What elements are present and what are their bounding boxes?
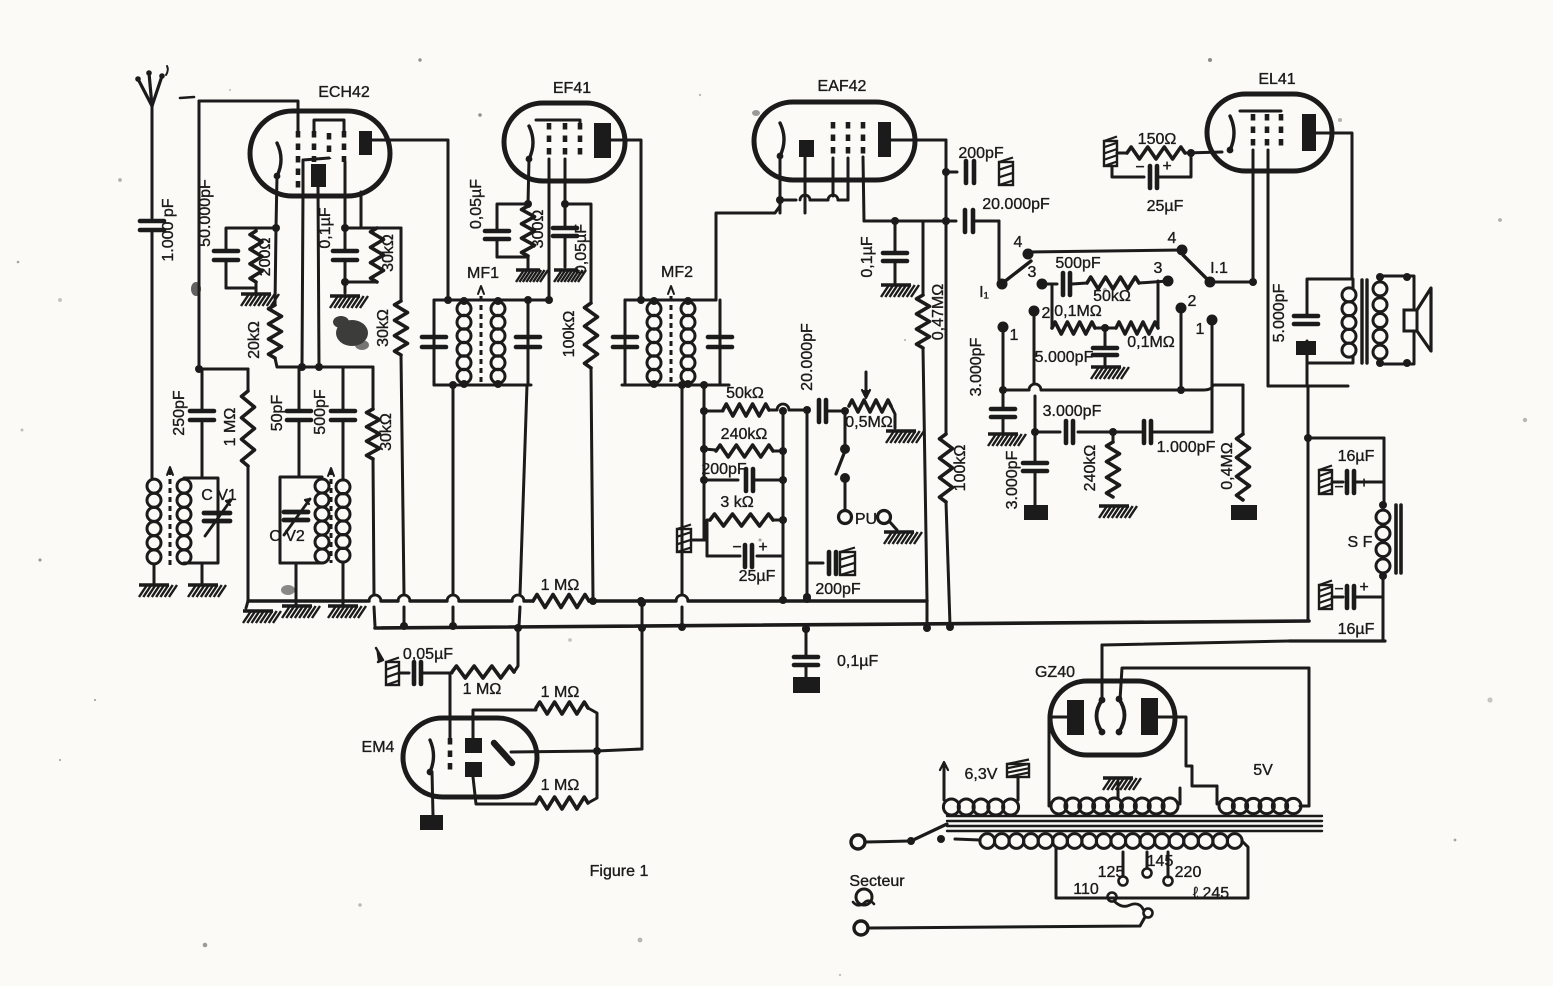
wire ladder left rail <box>700 381 708 540</box>
switch I1 lever <box>1004 261 1031 282</box>
capacitor 16µF upper <box>1319 448 1384 496</box>
grid g2 EL41 <box>1265 114 1270 146</box>
core power transformer <box>947 816 1322 831</box>
capacitor 1.000pF antenna series <box>140 198 177 261</box>
ground 3kΩ hatch block <box>677 525 707 553</box>
wire tone middle node <box>1095 324 1116 332</box>
wire oscillator anode to bus start <box>373 459 375 626</box>
wire tone left drop <box>1051 284 1054 328</box>
wire ECH42 internal g3 step <box>303 158 329 192</box>
capacitor MF1 primary <box>422 337 446 347</box>
coil 5V winding <box>1219 798 1301 813</box>
wire ECH42 triode anode pin <box>318 187 319 367</box>
capacitor 20.000pF coupling <box>946 196 1050 232</box>
wire MF1 top rail <box>434 296 553 305</box>
svg-text:1 MΩ: 1 MΩ <box>541 577 580 594</box>
svg-text:+: + <box>1359 475 1368 492</box>
terminal 0,05µF hatch block <box>386 658 399 686</box>
wire contact4 to contact4 <box>1028 250 1182 252</box>
ground EM4 black <box>420 815 443 830</box>
svg-text:30kΩ: 30kΩ <box>375 309 392 347</box>
svg-text:0,1MΩ: 0,1MΩ <box>1127 334 1175 351</box>
capacitor 200pF PU <box>807 548 861 599</box>
wire EL41 grid lead <box>1249 150 1257 286</box>
filament GZ40 left <box>1097 697 1106 736</box>
selector wiper <box>1114 901 1144 911</box>
label GZ40 <box>1035 664 1075 681</box>
ground 5.000pF black <box>1296 341 1316 355</box>
wire 100kΩ to AVC bus <box>591 368 593 599</box>
label MF2 <box>661 264 693 281</box>
label 6,3V <box>965 766 998 783</box>
tube ECH42 envelope <box>250 111 390 196</box>
wire MF1 left rail <box>433 300 436 385</box>
wire EL41 screen bottom rail <box>1268 363 1348 386</box>
svg-text:I.1: I.1 <box>1210 260 1228 277</box>
node MF1 stub at bus <box>449 622 457 630</box>
capacitor MF2 primary <box>613 337 637 347</box>
coil MF1 secondary <box>491 302 505 384</box>
coil output primary <box>1342 288 1356 357</box>
wire rectifier output to SF <box>1102 641 1289 645</box>
capacitor 500pF tone <box>1042 255 1101 295</box>
capacitor 0,05µF EF41 screen <box>553 204 590 274</box>
grid g1 ECH42 <box>296 131 301 188</box>
wire MF1 ground stub <box>449 381 457 624</box>
svg-text:3: 3 <box>1028 264 1037 281</box>
grid g3 ECH42 <box>327 133 332 159</box>
svg-text:30kΩ: 30kΩ <box>378 413 395 451</box>
capacitor 16µF lower <box>1319 579 1383 638</box>
svg-text:100kΩ: 100kΩ <box>952 445 969 492</box>
anode hexode ECH42 <box>359 131 372 155</box>
switch I1 contact 4 <box>1014 234 1034 260</box>
anode triode ECH42 <box>311 164 326 187</box>
resistor 0,4MΩ grid leak <box>1219 385 1250 500</box>
resistor 300Ω EF41 cathode <box>522 206 548 256</box>
potentiometer 0,5MΩ volume <box>841 400 893 431</box>
cathode EF41 <box>526 126 533 162</box>
wire CV1 frame <box>184 478 218 563</box>
label EL41 <box>1258 71 1295 88</box>
wire 1MΩ upper right <box>588 708 597 750</box>
wire ECH42 cathode lead <box>276 176 277 228</box>
svg-text:20.000pF: 20.000pF <box>799 323 816 391</box>
terminal mains 1 <box>851 835 865 849</box>
target bar EM4 <box>494 743 512 763</box>
node ECH42 cathode <box>272 224 280 232</box>
capacitor 500pF oscillator <box>312 367 355 480</box>
wire 150Ω to EL41 cathode <box>1185 149 1222 157</box>
svg-text:ℓ 245: ℓ 245 <box>1193 885 1229 902</box>
switch I1 pivot <box>997 279 1008 290</box>
wire EM4 grid lead <box>449 673 452 740</box>
wire MF2 bottom rail <box>622 380 729 388</box>
wire tone row3 <box>1031 428 1212 436</box>
wire primary left lead <box>955 839 980 840</box>
coil SF field <box>1376 510 1390 573</box>
ground antenna primary <box>139 585 177 597</box>
coil antenna secondary <box>177 479 191 564</box>
terminal mains 2 <box>854 921 868 935</box>
svg-text:Figure 1: Figure 1 <box>590 863 649 880</box>
coil oscillator tank <box>315 479 329 563</box>
anode GZ40 right <box>1141 698 1158 735</box>
capacitor 50pF oscillator <box>269 367 311 477</box>
wire EAF42 cathode pin <box>776 156 784 213</box>
svg-text:5.000pF: 5.000pF <box>1271 283 1288 342</box>
svg-text:0,05µF: 0,05µF <box>573 224 590 274</box>
wire top rail to ECH42 grid <box>180 97 298 133</box>
svg-text:100kΩ: 100kΩ <box>561 311 578 358</box>
resistor 1MΩ EM4 upper <box>536 684 588 714</box>
coil oscillator feedback <box>336 480 350 562</box>
jack PU right <box>878 511 891 524</box>
wire EAF42 diode pin <box>804 157 807 213</box>
core MF1 <box>478 286 484 385</box>
cathode ECH42 <box>274 143 281 179</box>
resistor 240kΩ tone shunt <box>1082 432 1120 497</box>
label 5.000pF output <box>1271 283 1288 342</box>
wire EM4 cathode to ground <box>432 772 433 815</box>
wire SF bottom rail <box>1289 639 1385 642</box>
svg-text:MF2: MF2 <box>661 264 693 281</box>
wire GZ40 left anode lead <box>1049 717 1067 806</box>
anode square EM4 upper <box>465 738 482 753</box>
svg-text:PU: PU <box>855 511 877 528</box>
svg-text:0,1µF: 0,1µF <box>317 207 334 248</box>
label CV1 <box>201 487 237 504</box>
node lower bus junctions <box>802 625 810 633</box>
grid g3 EF41 <box>578 123 583 155</box>
node antenna junction <box>195 365 203 373</box>
label I.1 <box>1210 260 1228 277</box>
wire 5V winding right end <box>1300 805 1309 808</box>
capacitor MF2 secondary <box>708 337 732 347</box>
capacitor 25µF electrolytic <box>707 539 783 585</box>
svg-text:Secteur: Secteur <box>849 873 905 890</box>
svg-text:150Ω: 150Ω <box>1138 131 1177 148</box>
wire I.1 contact2 drop <box>1180 311 1183 390</box>
label SF <box>1348 534 1373 551</box>
anode square EM4 lower <box>465 762 482 777</box>
svg-text:C V2: C V2 <box>269 528 305 545</box>
svg-text:0,1MΩ: 0,1MΩ <box>1054 303 1102 320</box>
ground HV center tap <box>1103 778 1141 799</box>
capacitor 50.000pF cathode <box>197 179 276 288</box>
label 245 <box>1193 885 1229 902</box>
wire primary to ground <box>153 564 156 583</box>
svg-text:2: 2 <box>1042 305 1051 322</box>
svg-text:1 MΩ: 1 MΩ <box>541 684 580 701</box>
switch I.1 contact 2 <box>1176 293 1197 314</box>
tube EF41 envelope <box>504 103 625 181</box>
resistor 3kΩ ladder <box>707 494 783 540</box>
svg-text:50pF: 50pF <box>269 395 286 432</box>
wire EF41 grid to MF1 <box>548 159 551 300</box>
cathode EAF42 <box>777 123 784 159</box>
capacitor 0,05µF EM4 <box>399 646 453 684</box>
capacitor 0,05µF EF41 cathode <box>468 179 528 257</box>
svg-text:20.000pF: 20.000pF <box>982 196 1050 213</box>
wire EAF42 g3 pin <box>847 158 850 200</box>
wire volume node vertical <box>803 406 811 601</box>
resistor 1MΩ oscillator grid <box>222 369 255 466</box>
wire SF right rail upper <box>1379 438 1387 509</box>
grid g3 EL41 <box>1279 114 1284 146</box>
wire 30kΩ to cap bottom <box>341 278 377 286</box>
wire primary right end <box>1242 841 1248 898</box>
wire MF2 secondary to EAF42 grid <box>716 206 780 300</box>
wire CV2 to ground <box>295 563 298 604</box>
resistor 20kΩ <box>246 228 282 359</box>
svg-text:220: 220 <box>1175 864 1202 881</box>
capacitor MF1 secondary <box>516 337 540 347</box>
capacitor 200pF anode <box>946 145 1004 183</box>
ground 0,1µF EAF42 <box>881 285 919 297</box>
wire antenna lead to coil <box>151 232 154 478</box>
svg-text:50kΩ: 50kΩ <box>726 385 764 402</box>
anode GZ40 left <box>1067 700 1084 735</box>
ground 0,1µF bus black <box>793 677 820 693</box>
label ECH42 <box>318 84 370 101</box>
wire I.1 contact1 drop <box>1211 323 1214 432</box>
svg-text:+: + <box>758 539 767 556</box>
svg-text:3: 3 <box>1154 260 1163 277</box>
tube EL41 envelope <box>1207 94 1332 171</box>
resistor 100kΩ to bus <box>940 434 970 502</box>
svg-text:20kΩ: 20kΩ <box>246 321 263 359</box>
grid g2 EAF42 <box>846 122 851 154</box>
grid g2 ECH42 <box>312 131 317 162</box>
grid g4 ECH42 <box>342 131 347 162</box>
switch I.1 pivot <box>1205 277 1216 288</box>
capacitor 3.000pF row3 shunt <box>1004 432 1047 509</box>
node mains switch pivot <box>907 837 915 845</box>
capacitor 1.000pF row3 <box>1115 421 1216 456</box>
label Figure 1 <box>590 863 649 880</box>
switch mains lever <box>911 824 947 841</box>
svg-text:+: + <box>1359 579 1368 596</box>
wire anode vertical <box>942 140 950 434</box>
switch I1 contact 1 <box>998 322 1019 345</box>
wire CV2 frame <box>280 477 322 563</box>
grid g1 EL41 <box>1251 114 1256 146</box>
wire GZ40 filament lead 2 <box>1120 668 1309 700</box>
core output transformer <box>1362 280 1367 363</box>
svg-text:6,3V: 6,3V <box>965 766 998 783</box>
ground 0,4MΩ black <box>1231 505 1257 520</box>
wire AVC bus right section <box>589 595 927 605</box>
svg-text:0,5MΩ: 0,5MΩ <box>845 414 893 431</box>
svg-text:−: − <box>1334 581 1343 598</box>
resistor 50kΩ ladder <box>704 385 769 416</box>
svg-text:125: 125 <box>1098 864 1125 881</box>
core oscillator transformer <box>328 468 334 563</box>
label PU <box>855 511 877 528</box>
grid g2 EF41 <box>563 123 568 155</box>
switch PU upper contact <box>840 411 850 454</box>
resistor 1MΩ EM4 grid <box>452 666 514 698</box>
svg-text:−: − <box>1334 479 1343 496</box>
wire screen strap ECH42 <box>314 120 344 131</box>
ground CV2 <box>282 606 320 618</box>
wire EAF42 g1 pin <box>832 158 835 196</box>
node MF2 stub at bus <box>678 623 686 631</box>
svg-text:5V: 5V <box>1253 762 1273 779</box>
switch I1 contact 3 <box>1028 264 1048 290</box>
resistor 240kΩ ladder <box>704 426 783 457</box>
wire mains terminal 1 <box>866 841 909 842</box>
wire MF2 right rail <box>719 300 722 385</box>
ground cathode RC <box>241 294 279 306</box>
svg-text:−: − <box>1135 159 1144 176</box>
svg-text:3.000pF: 3.000pF <box>968 337 985 396</box>
capacitor 200pF ladder <box>701 461 783 491</box>
speaker <box>1404 288 1431 351</box>
svg-text:0,4MΩ: 0,4MΩ <box>1219 442 1236 490</box>
wire tap 145 <box>1146 852 1149 868</box>
cathode EM4 <box>427 740 434 775</box>
svg-text:500pF: 500pF <box>312 389 329 435</box>
switch PU lever <box>836 451 845 474</box>
wire tap box <box>1056 848 1248 898</box>
ground PU <box>884 521 922 544</box>
svg-text:3.000pF: 3.000pF <box>1043 403 1102 420</box>
wire antenna bus vertical <box>198 101 201 369</box>
wire mains terminal 2 to selector <box>868 917 1145 928</box>
svg-text:1.000 pF: 1.000 pF <box>160 198 177 261</box>
wire antenna down-lead <box>151 104 154 218</box>
svg-text:+: + <box>1162 158 1171 175</box>
wire EF41 cathode RC bottom <box>497 256 528 259</box>
resistor 30kΩ screen upper <box>371 228 398 282</box>
capacitor 5.000pF tone <box>1035 328 1117 366</box>
resistor 0,47MΩ diode load <box>917 221 948 348</box>
resistor 50kΩ tone <box>1087 277 1168 305</box>
coil MF2 primary <box>647 302 661 384</box>
svg-text:250pF: 250pF <box>171 390 188 436</box>
terminal 6,3V hatch <box>1007 760 1029 778</box>
coil output secondary <box>1373 282 1387 359</box>
switch I1 contact 2 <box>1029 305 1051 322</box>
resistor 30kΩ screen lower <box>375 228 408 355</box>
wire MF2 left rail <box>624 300 627 385</box>
coil HV winding <box>1051 798 1178 814</box>
grid g1 EAF42 <box>831 122 836 154</box>
svg-text:500pF: 500pF <box>1055 255 1101 272</box>
anode EL41 <box>1302 114 1316 151</box>
capacitor 0,1µF bus decoupling <box>794 625 878 677</box>
wire EM4 anode lower to 1MΩ <box>473 777 536 804</box>
resistor 1MΩ AVC bus <box>533 577 589 608</box>
svg-text:C V1: C V1 <box>201 487 237 504</box>
wire GZ40 right anode lead <box>1158 717 1217 786</box>
wire EAF42 diode load rail <box>864 217 950 225</box>
label 5V <box>1253 762 1273 779</box>
wire SF right rail lower <box>1379 572 1387 641</box>
svg-text:16µF: 16µF <box>1338 448 1375 465</box>
wire 20.000pF to switch I1 <box>998 221 1001 281</box>
svg-text:0,1µF: 0,1µF <box>837 653 878 670</box>
wire 30kΩ lower to bus <box>401 355 404 624</box>
svg-text:1 MΩ: 1 MΩ <box>541 777 580 794</box>
svg-text:5.000pF: 5.000pF <box>1035 349 1094 366</box>
wire EM4 anode upper to 1MΩ <box>473 710 536 738</box>
wire grid strap EL41 <box>1240 110 1281 113</box>
coil MF1 primary <box>457 302 471 384</box>
wire 6,3V right lead <box>1017 777 1020 800</box>
wire ladder right rail <box>779 407 787 556</box>
resistor 30kΩ oscillator anode <box>367 367 396 459</box>
wire EAF42 screen pin <box>863 157 864 221</box>
wire EF41 screen to 100kΩ <box>565 204 591 303</box>
svg-text:3.000pF: 3.000pF <box>1004 450 1021 509</box>
svg-text:1: 1 <box>1010 327 1019 344</box>
ground EF41 screen <box>554 270 586 282</box>
wire row1 hook to 0,4MΩ <box>1203 385 1243 390</box>
tap circle 110 <box>1073 881 1116 902</box>
tube EM4 envelope <box>403 718 537 797</box>
wire EF41 cathode pin <box>524 159 532 208</box>
label I1 <box>979 284 989 301</box>
capacitor 0,1µF ECH42 screen <box>317 207 357 282</box>
coil 6,3V winding <box>943 799 1018 815</box>
svg-text:240kΩ: 240kΩ <box>721 426 768 443</box>
wire MF2 top rail <box>625 296 716 305</box>
svg-text:240kΩ: 240kΩ <box>1082 445 1099 492</box>
switch I.1 contact 4 <box>1168 230 1188 256</box>
svg-text:S F: S F <box>1348 534 1373 551</box>
svg-text:MF1: MF1 <box>467 265 499 282</box>
wire 1MΩ to AVC bus <box>247 466 250 601</box>
svg-text:25µF: 25µF <box>739 568 776 585</box>
wire 1MΩ to bus <box>514 624 522 672</box>
switch I.1 lever <box>1183 255 1208 280</box>
wire MF2 ground stub <box>678 381 686 624</box>
wire output transformer primary frame <box>1307 279 1353 363</box>
svg-text:1 MΩ: 1 MΩ <box>222 408 239 447</box>
wire 50kΩ to volume node <box>769 404 807 410</box>
svg-text:4: 4 <box>1014 234 1023 251</box>
ground 3.000pF shunt black <box>1024 505 1048 520</box>
wire cathode RC bottom <box>226 282 256 292</box>
svg-text:EM4: EM4 <box>362 739 395 756</box>
wire EAF42 anode lead <box>891 139 946 142</box>
capacitor 5.000pF output <box>1294 316 1318 324</box>
svg-text:−: − <box>732 539 741 556</box>
tap circle 145 <box>1143 853 1174 878</box>
svg-text:2: 2 <box>1188 293 1197 310</box>
svg-text:EAF42: EAF42 <box>818 78 867 95</box>
core MF2 <box>668 286 674 385</box>
coil mains primary winding <box>980 834 1242 849</box>
wire HV winding right hook <box>1179 788 1182 804</box>
diode plate EAF42 <box>799 140 814 157</box>
variable capacitor CV1 <box>204 500 231 536</box>
svg-text:200pF: 200pF <box>958 145 1004 162</box>
wire EL41 screen lead <box>1267 150 1270 386</box>
svg-text:200pF: 200pF <box>701 461 747 478</box>
svg-text:1 MΩ: 1 MΩ <box>463 681 502 698</box>
plug Secteur <box>853 889 874 905</box>
wire EF41 anode to MF2 <box>611 140 641 300</box>
wire screen divider rail <box>345 227 401 230</box>
resistor 0,1MΩ tone right <box>1116 322 1175 351</box>
capacitor 3.000pF row3 <box>1043 403 1102 443</box>
jack PU left <box>839 511 852 524</box>
wire grid strap EF41 <box>536 120 580 123</box>
